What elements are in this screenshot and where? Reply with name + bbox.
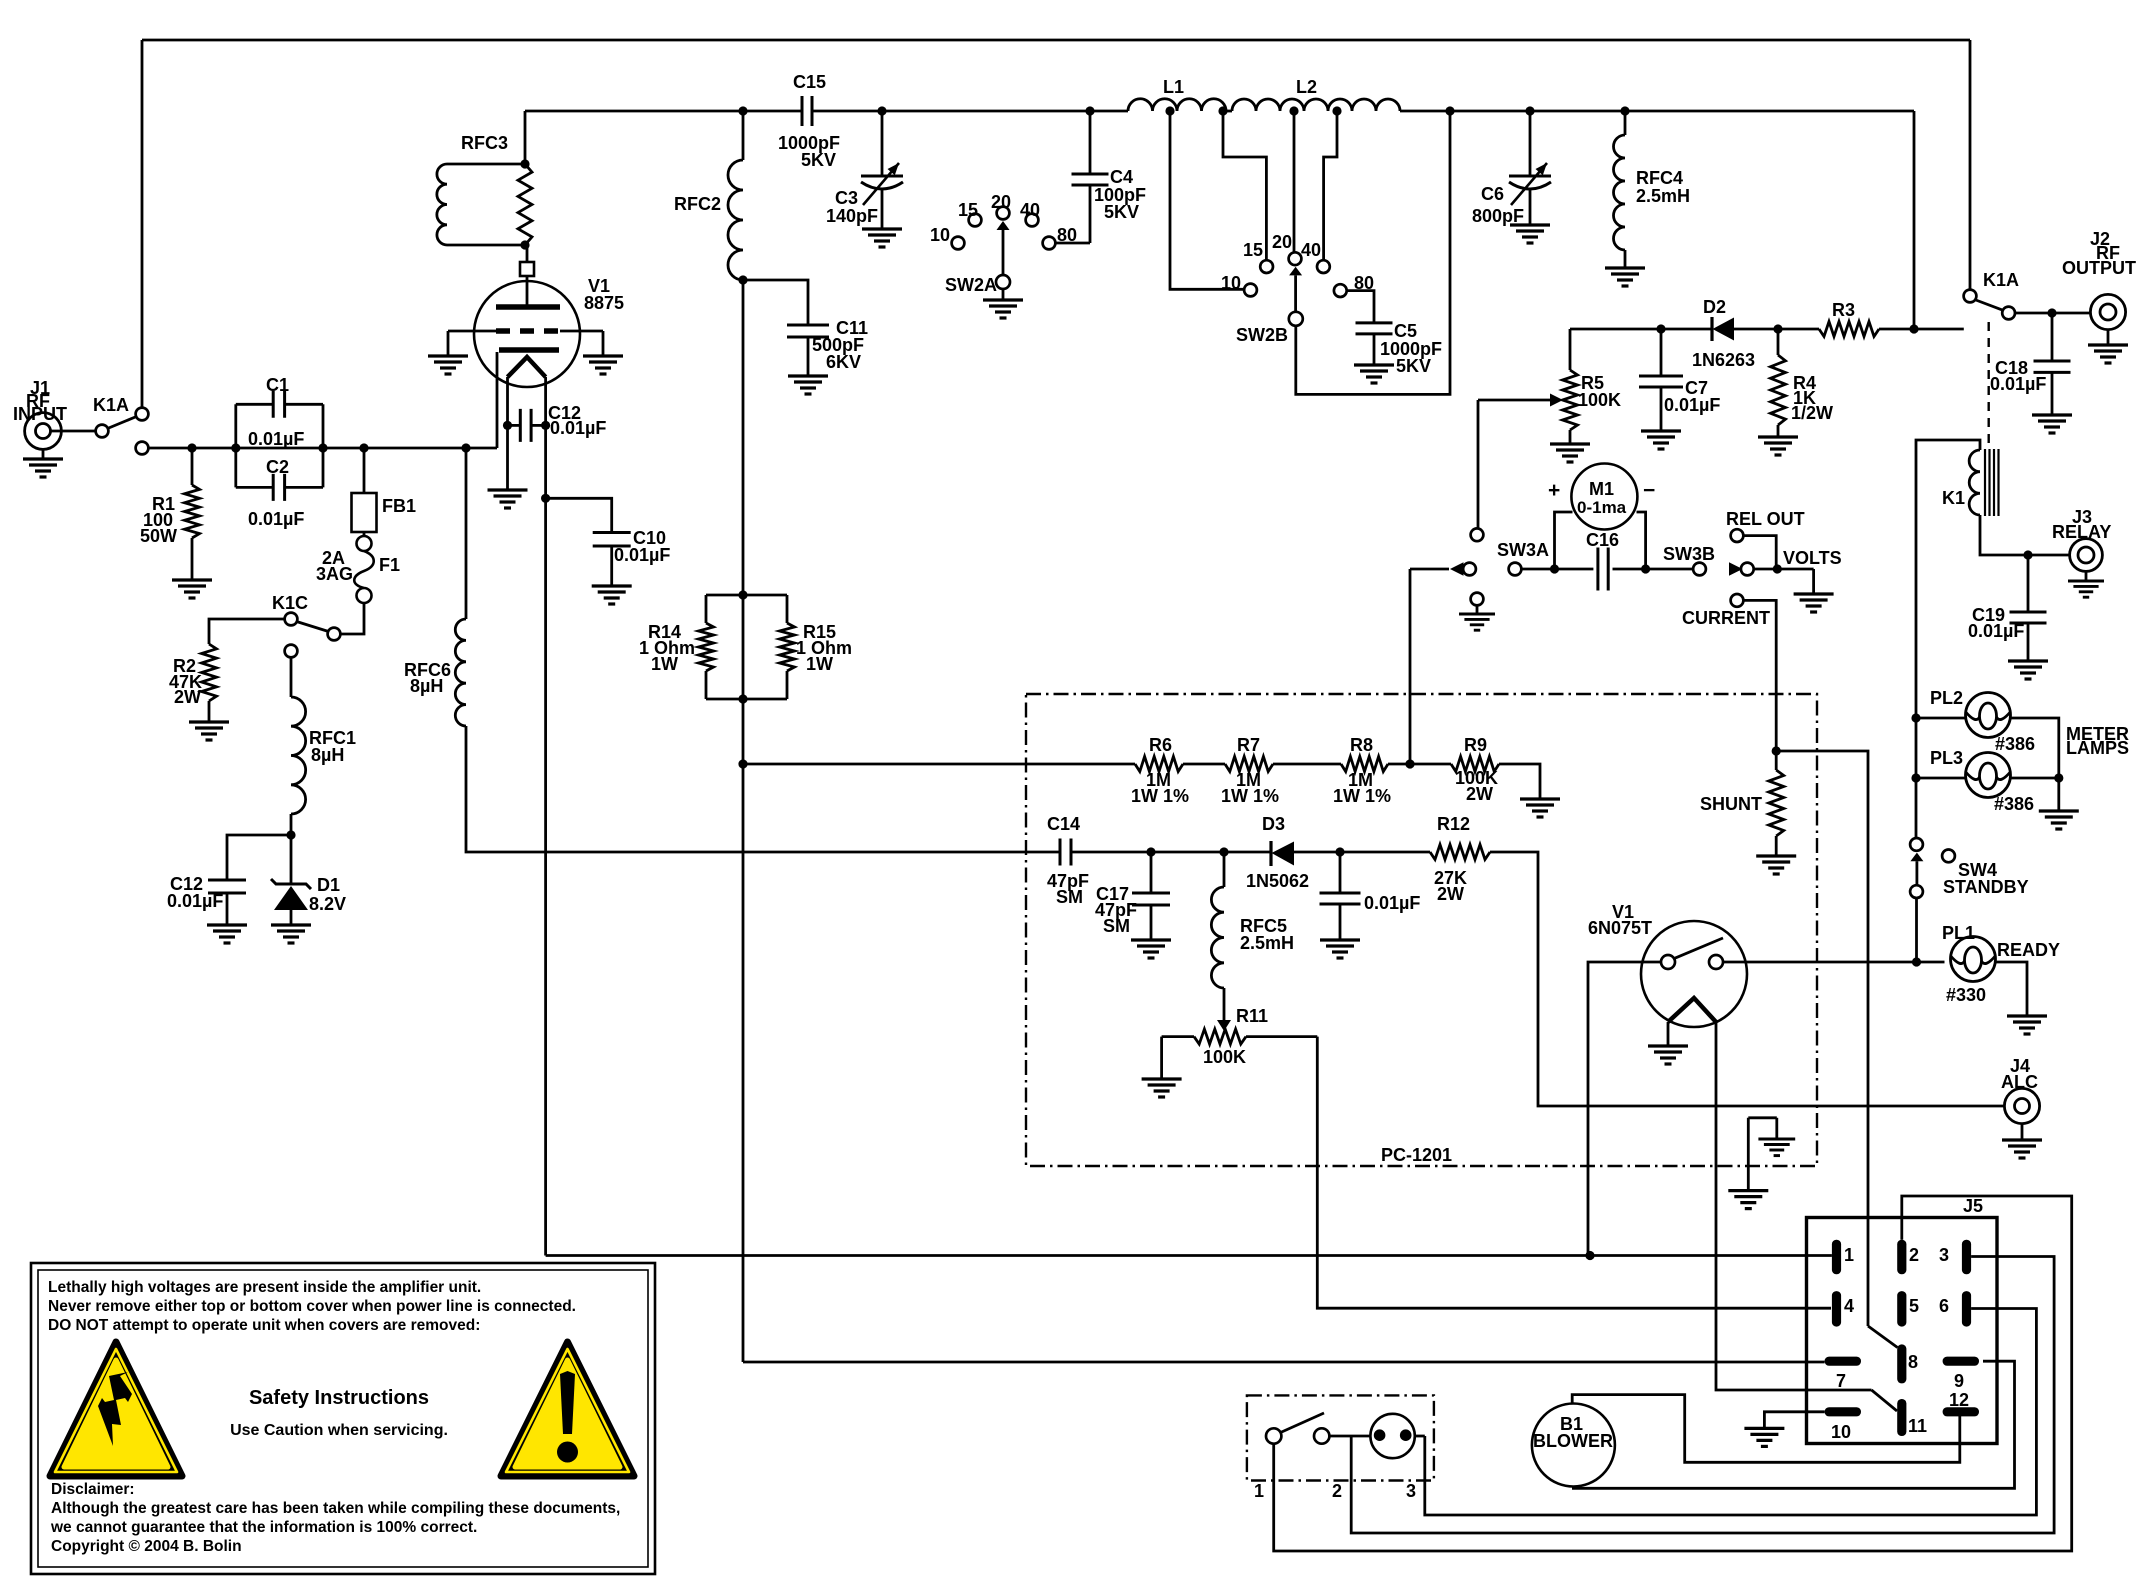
svg-text:L2: L2 (1296, 77, 1317, 97)
svg-text:Although the greatest care has: Although the greatest care has been take… (51, 1500, 620, 1517)
svg-text:C14: C14 (1047, 814, 1080, 834)
svg-text:4: 4 (1844, 1296, 1854, 1316)
svg-text:140pF: 140pF (826, 206, 878, 226)
svg-text:R3: R3 (1832, 300, 1855, 320)
svg-text:REL OUT: REL OUT (1726, 509, 1805, 529)
svg-text:Disclaimer:: Disclaimer: (51, 1481, 135, 1498)
svg-text:SW3A: SW3A (1497, 540, 1549, 560)
svg-text:3: 3 (1406, 1481, 1416, 1501)
svg-text:Copyright © 2004 B. Bolin: Copyright © 2004 B. Bolin (51, 1538, 242, 1555)
svg-text:800pF: 800pF (1472, 206, 1524, 226)
svg-text:ALC: ALC (2001, 1072, 2038, 1092)
svg-text:#386: #386 (1994, 794, 2034, 814)
svg-text:0.01µF: 0.01µF (1364, 893, 1420, 913)
svg-text:Safety Instructions: Safety Instructions (249, 1387, 429, 1409)
svg-text:1W: 1W (806, 654, 833, 674)
svg-text:1N5062: 1N5062 (1246, 871, 1309, 891)
svg-text:20: 20 (991, 192, 1011, 212)
svg-text:CURRENT: CURRENT (1682, 608, 1770, 628)
svg-text:40: 40 (1301, 240, 1321, 260)
svg-text:SM: SM (1056, 887, 1083, 907)
svg-text:C4: C4 (1110, 167, 1133, 187)
svg-text:C3: C3 (835, 188, 858, 208)
svg-text:K1: K1 (1942, 488, 1965, 508)
svg-text:STANDBY: STANDBY (1943, 877, 2029, 897)
svg-text:15: 15 (1243, 240, 1263, 260)
svg-text:SHUNT: SHUNT (1700, 794, 1762, 814)
svg-text:C16: C16 (1586, 530, 1619, 550)
svg-text:SW2A: SW2A (945, 275, 997, 295)
svg-text:1W: 1W (651, 654, 678, 674)
svg-text:Lethally high voltages are pre: Lethally high voltages are present insid… (48, 1279, 481, 1296)
svg-text:R6: R6 (1149, 735, 1172, 755)
svg-text:3: 3 (1939, 1245, 1949, 1265)
svg-text:6KV: 6KV (826, 352, 861, 372)
svg-text:5KV: 5KV (801, 150, 836, 170)
svg-text:10: 10 (1221, 273, 1241, 293)
svg-text:2: 2 (1332, 1481, 1342, 1501)
svg-text:0.01µF: 0.01µF (1990, 374, 2046, 394)
svg-text:#330: #330 (1946, 985, 1986, 1005)
svg-text:C6: C6 (1481, 184, 1504, 204)
svg-text:2W: 2W (174, 687, 201, 707)
svg-text:K1C: K1C (272, 593, 308, 613)
svg-text:20: 20 (1272, 232, 1292, 252)
svg-text:FB1: FB1 (382, 496, 416, 516)
svg-text:LAMPS: LAMPS (2066, 738, 2129, 758)
svg-text:1: 1 (1254, 1481, 1264, 1501)
svg-text:Never remove either top or bot: Never remove either top or bottom cover … (48, 1298, 576, 1315)
svg-text:8µH: 8µH (410, 676, 443, 696)
svg-text:15: 15 (958, 200, 978, 220)
svg-text:PL2: PL2 (1930, 688, 1963, 708)
svg-text:BLOWER: BLOWER (1533, 1431, 1613, 1451)
svg-text:2W: 2W (1437, 884, 1464, 904)
svg-text:+: + (1548, 479, 1560, 502)
svg-text:8875: 8875 (584, 293, 624, 313)
svg-text:0.01µF: 0.01µF (614, 545, 670, 565)
svg-text:C15: C15 (793, 72, 826, 92)
svg-text:R12: R12 (1437, 814, 1470, 834)
svg-text:6: 6 (1939, 1296, 1949, 1316)
svg-text:100K: 100K (1203, 1047, 1246, 1067)
svg-text:VOLTS: VOLTS (1783, 548, 1842, 568)
svg-text:R11: R11 (1236, 1006, 1268, 1026)
svg-text:J5: J5 (1963, 1196, 1983, 1216)
svg-text:C1: C1 (266, 375, 289, 395)
svg-text:R9: R9 (1464, 735, 1487, 755)
svg-text:50W: 50W (140, 526, 177, 546)
svg-text:1N6263: 1N6263 (1692, 350, 1755, 370)
svg-text:5: 5 (1909, 1296, 1919, 1316)
svg-text:1: 1 (1844, 1245, 1854, 1265)
svg-text:SW3B: SW3B (1663, 544, 1715, 564)
svg-text:0.01µF: 0.01µF (1968, 621, 2024, 641)
svg-text:0.01µF: 0.01µF (1664, 395, 1720, 415)
svg-text:0.01µF: 0.01µF (550, 418, 606, 438)
svg-text:8.2V: 8.2V (309, 894, 346, 914)
svg-text:F1: F1 (379, 555, 400, 575)
svg-text:1W 1%: 1W 1% (1131, 786, 1189, 806)
svg-text:8µH: 8µH (311, 745, 344, 765)
svg-text:D1: D1 (317, 875, 340, 895)
svg-text:C5: C5 (1394, 321, 1417, 341)
svg-text:0.01µF: 0.01µF (248, 429, 304, 449)
svg-text:L1: L1 (1163, 77, 1184, 97)
svg-text:READY: READY (1997, 940, 2060, 960)
svg-text:0-1ma: 0-1ma (1577, 498, 1627, 517)
svg-text:D2: D2 (1703, 297, 1726, 317)
svg-text:R7: R7 (1237, 735, 1260, 755)
svg-text:6N075T: 6N075T (1588, 918, 1652, 938)
svg-text:11: 11 (1908, 1416, 1927, 1436)
svg-text:SM: SM (1103, 916, 1130, 936)
svg-text:3AG: 3AG (316, 564, 353, 584)
svg-text:1/2W: 1/2W (1791, 403, 1833, 423)
svg-text:10: 10 (1831, 1422, 1851, 1442)
svg-text:12: 12 (1949, 1390, 1969, 1410)
svg-text:RFC2: RFC2 (674, 194, 721, 214)
svg-text:7: 7 (1836, 1371, 1846, 1391)
svg-text:SW2B: SW2B (1236, 325, 1288, 345)
svg-text:M1: M1 (1589, 479, 1614, 499)
svg-text:1W 1%: 1W 1% (1333, 786, 1391, 806)
svg-text:RFC4: RFC4 (1636, 168, 1683, 188)
svg-text:RFC3: RFC3 (461, 133, 508, 153)
svg-text:100K: 100K (1578, 390, 1621, 410)
svg-text:2W: 2W (1466, 784, 1493, 804)
svg-text:we cannot guarantee that the i: we cannot guarantee that the information… (50, 1519, 477, 1536)
svg-text:PL3: PL3 (1930, 748, 1963, 768)
svg-text:2.5mH: 2.5mH (1240, 933, 1294, 953)
svg-text:Use Caution when servicing.: Use Caution when servicing. (230, 1422, 448, 1439)
svg-text:5KV: 5KV (1104, 202, 1139, 222)
svg-text:5KV: 5KV (1396, 356, 1431, 376)
svg-text:−: − (1643, 479, 1655, 502)
svg-text:2: 2 (1909, 1245, 1919, 1265)
svg-text:10: 10 (930, 225, 950, 245)
svg-text:2.5mH: 2.5mH (1636, 186, 1690, 206)
svg-text:0.01µF: 0.01µF (248, 509, 304, 529)
svg-text:1W 1%: 1W 1% (1221, 786, 1279, 806)
svg-text:PC-1201: PC-1201 (1381, 1145, 1452, 1165)
svg-text:R8: R8 (1350, 735, 1373, 755)
svg-text:RELAY: RELAY (2052, 522, 2111, 542)
svg-text:9: 9 (1954, 1371, 1964, 1391)
svg-text:OUTPUT: OUTPUT (2062, 258, 2136, 278)
svg-text:0.01µF: 0.01µF (167, 891, 223, 911)
svg-text:K1A: K1A (93, 395, 129, 415)
svg-text:8: 8 (1908, 1352, 1918, 1372)
svg-text:DO NOT attempt to operate unit: DO NOT attempt to operate unit when cove… (48, 1317, 480, 1334)
svg-text:D3: D3 (1262, 814, 1285, 834)
svg-text:INPUT: INPUT (13, 404, 67, 424)
svg-text:PL1: PL1 (1942, 923, 1975, 943)
svg-text:40: 40 (1020, 200, 1040, 220)
svg-text:K1A: K1A (1983, 270, 2019, 290)
svg-text:#386: #386 (1995, 734, 2035, 754)
svg-text:C2: C2 (266, 457, 289, 477)
